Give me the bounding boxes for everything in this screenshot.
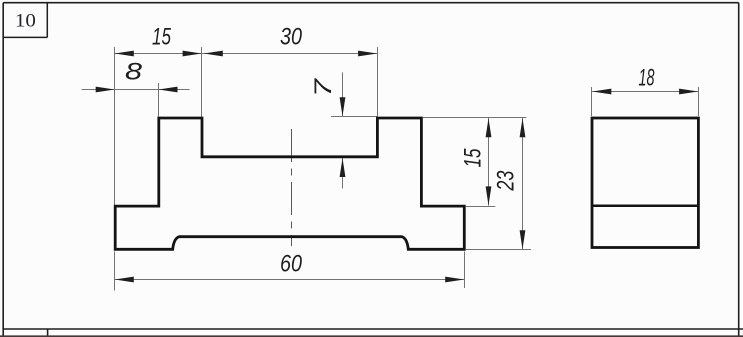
center line: [291, 129, 293, 246]
arrows dim 7: [340, 97, 346, 116]
side view outline: [592, 118, 698, 248]
arrows dim 15 right: [486, 118, 492, 137]
svg-text:18: 18: [639, 64, 655, 91]
arrows dim 18: [592, 89, 611, 95]
svg-text:15: 15: [152, 23, 171, 50]
svg-text:60: 60: [280, 251, 303, 278]
arrows dim 15 top: [115, 51, 134, 57]
svg-text:10: 10: [15, 11, 36, 32]
svg-text:7: 7: [310, 77, 337, 97]
bottom edge line: [0, 335, 743, 337]
extension lines: [115, 47, 699, 291]
title box: [3, 3, 47, 38]
svg-text:8: 8: [125, 59, 143, 86]
arrows dim 8: [96, 87, 115, 93]
arrows dim 30: [204, 51, 223, 57]
arrows dim 60: [115, 277, 134, 283]
svg-text:30: 30: [280, 23, 303, 50]
svg-text:23: 23: [493, 170, 520, 191]
svg-text:15: 15: [459, 148, 486, 167]
side view step line: [592, 205, 698, 208]
part front view outline: [115, 118, 464, 249]
dimension lines: [82, 54, 699, 280]
arrows dim 23: [520, 118, 526, 137]
